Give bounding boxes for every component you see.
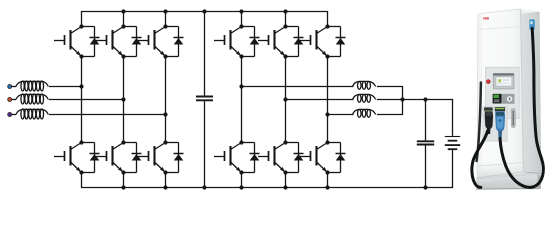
node inverter leg 2 output junction (283, 97, 287, 101)
IGBT Q5 (96, 140, 126, 174)
IGBT Q10 (214, 140, 244, 174)
wire leg 3 middle (165, 57, 167, 143)
svg-text:ABB: ABB (483, 16, 489, 20)
diode D4 (freewheeling) (82, 143, 100, 173)
IGBT Q1 (54, 24, 84, 58)
wire inverter phase 3 to filter (328, 114, 354, 116)
wire phase B to bridge leg (49, 99, 124, 101)
wire filter phase 3 to join (377, 100, 403, 115)
wire leg 2 lower (123, 173, 125, 188)
side cable holder (529, 19, 534, 29)
diode D12 (freewheeling) (328, 143, 346, 173)
wire output cap upper (425, 100, 427, 141)
wire DC output rail (403, 100, 453, 136)
node phase C / leg junction (163, 112, 167, 116)
wire leg 4 lower (241, 173, 243, 188)
inductor L2 (16, 94, 48, 104)
left connector cable (472, 131, 488, 187)
node bottom bus x=425.5 (423, 185, 427, 189)
wire inverter phase 1 to filter (242, 86, 354, 88)
IGBT Q9 (300, 24, 330, 58)
node inverter leg 3 output junction (325, 112, 329, 116)
node top bus x=165.5 (163, 9, 167, 13)
wire phase C to bridge leg (49, 114, 166, 116)
diode D6 (freewheeling) (166, 143, 184, 173)
capacitor C1 (DC link) (196, 97, 213, 101)
wire leg 6 middle (327, 57, 329, 143)
diode D5 (freewheeling) (124, 143, 142, 173)
diode D3 (freewheeling) (166, 27, 184, 57)
node bottom bus x=241.5 (239, 185, 243, 189)
diode D2 (freewheeling) (124, 27, 142, 57)
wire DC-link cap upper (204, 12, 206, 96)
wire output cap lower (425, 145, 427, 187)
node output cap tap (423, 97, 427, 101)
wire leg 4 middle (241, 57, 243, 143)
wire leg 5 middle (285, 57, 287, 143)
node bottom bus x=123.5 (121, 185, 125, 189)
phase A input terminal (8, 85, 12, 89)
wire phase A input lead (10, 86, 16, 88)
node phase A / leg junction (79, 84, 83, 88)
IGBT Q11 (258, 140, 288, 174)
wire leg 2 middle (123, 57, 125, 143)
wire phase C input lead (10, 114, 16, 116)
EV charger photo (476, 8, 541, 190)
inductor L1 (16, 81, 48, 91)
node top bus x=241.5 (239, 9, 243, 13)
wire leg 3 upper (165, 12, 167, 27)
node top bus x=285.5 (283, 9, 287, 13)
wire DC-link cap lower (204, 101, 206, 187)
wire leg 1 middle (81, 57, 83, 143)
IGBT Q4 (54, 140, 84, 174)
right charging cable (loops to top hook) (500, 29, 543, 188)
capacitor C2 (output filter) (417, 141, 434, 144)
phase B input terminal (8, 98, 12, 102)
node output join (400, 97, 404, 101)
diode D10 (freewheeling) (242, 143, 260, 173)
diode D7 (freewheeling) (242, 27, 260, 57)
connector holsters (483, 107, 516, 141)
IGBT Q3 (138, 24, 168, 58)
diode D11 (freewheeling) (286, 143, 304, 173)
wire inverter phase 2 to filter (286, 99, 354, 101)
node phase B / leg junction (121, 97, 125, 101)
charger control panel (486, 67, 519, 119)
node top bus x=123.5 (121, 9, 125, 13)
node inverter leg 1 output junction (239, 84, 243, 88)
IGBT Q6 (138, 140, 168, 174)
phase C input terminal (8, 113, 12, 117)
wire leg 3 lower (165, 173, 167, 188)
IGBT Q7 (214, 24, 244, 58)
wire filter phase 1 to join (377, 87, 403, 100)
IGBT Q2 (96, 24, 126, 58)
IGBT Q12 (300, 140, 330, 174)
wire phase A to bridge leg (49, 86, 82, 88)
wire phase B input lead (10, 99, 16, 101)
wire filter phase 2 to output rail (377, 99, 403, 101)
wire leg 2 upper (123, 12, 125, 27)
wire leg 6 lower (327, 173, 329, 188)
node top bus x=204.5 (202, 9, 206, 13)
wire leg 5 lower (285, 173, 287, 188)
node bottom bus x=285.5 (283, 185, 287, 189)
node bottom bus x=165.5 (163, 185, 167, 189)
battery BT1 (EV battery) (445, 137, 460, 150)
left side cable segment (477, 83, 481, 162)
wire leg 5 upper (285, 12, 287, 27)
inductor L6 (353, 109, 376, 117)
diode D1 (freewheeling) (82, 27, 100, 57)
diode D9 (freewheeling) (328, 27, 346, 57)
inductor L4 (353, 81, 376, 89)
wire leg 4 upper (241, 12, 243, 27)
node bottom bus x=327.5 (325, 185, 329, 189)
IGBT Q8 (258, 24, 288, 58)
inductor L5 (353, 94, 376, 102)
wire top DC bus (82, 12, 328, 27)
node bottom bus x=204.5 (202, 185, 206, 189)
diode D8 (freewheeling) (286, 27, 304, 57)
wire bottom DC bus (82, 150, 453, 188)
inductor L3 (16, 109, 48, 119)
